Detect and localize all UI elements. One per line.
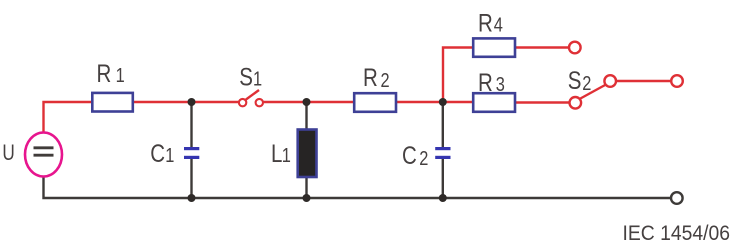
svg-text:R: R [478,8,493,36]
resistor R4 [473,38,515,56]
wire: black vertical C1 branch upper [190,102,192,148]
terminal: bottom rail open circle [671,192,683,204]
capacitor C2 plates [435,149,450,158]
wire: black vertical C1 branch lower [190,159,192,198]
svg-text:IEC 1454/06: IEC 1454/06 [623,222,731,245]
capacitor C1 plates [184,149,199,158]
svg-text:R: R [363,63,378,91]
svg-text:L: L [271,139,282,167]
wire: black from source bottom down to bottom rail [44,176,671,198]
node junction at C1 top [188,98,196,106]
wire: black vertical C2 branch upper [442,102,444,148]
resistor R2 [354,93,396,112]
svg-text:C: C [402,141,417,169]
node junction at L1 top [303,98,311,106]
svg-text:3: 3 [496,72,505,95]
svg-text:R: R [478,68,493,96]
wire: red S1 right contact to R2 left [263,101,354,103]
switch S1 [239,90,263,106]
resistor R1 [92,93,133,112]
wire: red from source top up and right to R1 [44,102,93,133]
voltage source equals-sign bars [34,148,54,155]
svg-text:C: C [150,139,165,167]
svg-text:2: 2 [419,147,428,170]
wire: red S2 pivot to right output terminal [616,80,672,82]
svg-text:S: S [239,63,253,91]
terminal: S2 output open circle [671,75,683,87]
svg-text:U: U [2,141,14,166]
node junction at L1 bottom [303,194,311,202]
wire: red R2 right through node to R3 left [396,101,473,103]
wire: black vertical L1 branch upper [305,102,307,131]
wire: red branch up from node to R4 [443,48,473,103]
voltage source U1 circle [25,133,62,177]
svg-text:S: S [568,66,582,94]
wire: red R3 right to S2 lower contact [515,101,570,103]
wire: red R1 right to S1 left contact [133,101,240,103]
wire: black vertical L1 branch lower [305,176,307,198]
terminal: R4 output open circle [569,42,581,54]
switch S2 [570,75,617,108]
svg-text:2: 2 [582,72,591,95]
svg-text:1: 1 [282,143,291,166]
wire: red R4 right to output terminal [515,46,569,48]
resistor R3 [473,93,515,112]
svg-text:1: 1 [165,143,174,166]
svg-text:2: 2 [381,68,390,91]
svg-text:R: R [97,59,112,87]
node junction at C1 bottom [188,194,196,202]
wire: black vertical C2 branch lower [442,159,444,198]
svg-text:1: 1 [253,67,262,90]
svg-text:1: 1 [116,63,125,86]
node junction at C2 bottom [439,194,447,202]
svg-text:4: 4 [494,13,503,36]
inductor L1 [298,130,317,178]
node junction at C2 top [439,98,447,106]
